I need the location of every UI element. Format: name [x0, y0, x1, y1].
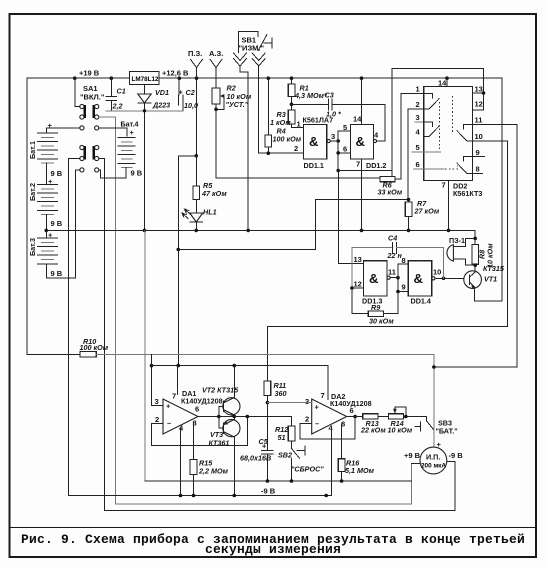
- svg-text:11: 11: [388, 268, 396, 277]
- switch SB3 БАТ.: [415, 417, 458, 436]
- terminal П.З.: [188, 49, 202, 78]
- capacitor C3: [292, 91, 385, 119]
- svg-text:2,2: 2,2: [112, 102, 123, 111]
- svg-text:Д223: Д223: [152, 101, 170, 110]
- switch SB2 СБРОС: [278, 446, 324, 481]
- DD2 pin 5 stub: [412, 151, 424, 153]
- svg-text:К140УД1208: К140УД1208: [181, 397, 223, 406]
- svg-text:9 В: 9 В: [51, 219, 63, 228]
- svg-text:5: 5: [343, 123, 347, 132]
- svg-text:ПЗ-1: ПЗ-1: [449, 236, 465, 245]
- svg-text:22 н: 22 н: [387, 251, 403, 260]
- svg-text:А.З.: А.З.: [209, 49, 223, 58]
- wire DA1 pin4 to -9V: [180, 428, 182, 496]
- svg-text:К561КТ3: К561КТ3: [453, 189, 482, 198]
- svg-text:+12,6 В: +12,6 В: [162, 69, 189, 78]
- transistor VT3 КТ361: [209, 417, 240, 496]
- wire DD2 pin2 to R7: [424, 108, 473, 110]
- svg-text:5: 5: [416, 143, 420, 152]
- svg-text:"ИЗМ.": "ИЗМ.": [239, 44, 265, 53]
- svg-text:C3: C3: [325, 91, 334, 100]
- svg-text:1: 1: [416, 85, 420, 94]
- DD2 switch 9-8: [457, 157, 473, 174]
- SA1 section2 contacts: [80, 145, 99, 160]
- svg-text:HL1: HL1: [203, 208, 217, 217]
- svg-text:секунды измерения: секунды измерения: [205, 542, 341, 557]
- svg-text:12: 12: [475, 100, 483, 109]
- wire R11 to DA2 pin3: [267, 402, 311, 404]
- wire R2 bottom to R6 left: [214, 108, 218, 112]
- svg-text:+: +: [166, 402, 171, 411]
- svg-text:47 кОм: 47 кОм: [201, 189, 227, 198]
- svg-text:100 кОм: 100 кОм: [273, 135, 302, 144]
- svg-text:33 кОм: 33 кОм: [378, 188, 403, 197]
- wire П.З. branch to DD2 pin2 net: [178, 156, 408, 250]
- wire osc net to DD1.3 pin13 and R6: [338, 170, 392, 172]
- wire 0V bottom rail: [145, 480, 411, 482]
- svg-text:К561ЛА7: К561ЛА7: [303, 116, 334, 125]
- svg-text:+: +: [48, 121, 53, 130]
- resistor R9: [352, 288, 398, 326]
- DD2 pin 14: [438, 78, 447, 87]
- DD2 switch 1-2: [424, 94, 440, 110]
- SA1 row4 contacts: [80, 168, 99, 172]
- resistor R5: [193, 78, 227, 199]
- wire rail junction dots: [73, 76, 449, 80]
- svg-text:DD1.4: DD1.4: [411, 297, 431, 306]
- svg-text:6: 6: [416, 160, 420, 169]
- DD2 switch 3-4: [424, 122, 440, 137]
- svg-text:-9 В: -9 В: [449, 451, 464, 460]
- wire DA1 output to bases: [198, 416, 234, 418]
- DD2 pin 7: [442, 180, 449, 230]
- svg-text:3: 3: [331, 132, 335, 141]
- wire +12.6V down right side: [474, 78, 501, 301]
- wire DA2 output: [347, 416, 363, 418]
- resistor R6: [378, 176, 403, 196]
- svg-text:7: 7: [321, 391, 325, 400]
- svg-text:10: 10: [433, 268, 441, 277]
- svg-text:3: 3: [155, 397, 159, 406]
- svg-text:12: 12: [354, 280, 362, 289]
- wire SA1 sec2 right to meter return: [99, 159, 455, 511]
- svg-text:1 кОм: 1 кОм: [270, 118, 291, 127]
- svg-text:4,3 МОм*: 4,3 МОм*: [294, 91, 328, 100]
- svg-text:КТ315: КТ315: [483, 264, 505, 273]
- svg-text:–: –: [315, 419, 319, 428]
- svg-text:13: 13: [354, 255, 362, 264]
- svg-text:C1: C1: [117, 87, 126, 96]
- svg-text:+: +: [315, 403, 320, 412]
- svg-text:Бат.1: Бат.1: [28, 141, 37, 159]
- connector jack 1: [234, 53, 249, 230]
- svg-text:9 В: 9 В: [131, 169, 143, 178]
- terminal А.З.: [209, 49, 223, 88]
- wire +19V to SA1: [75, 78, 80, 106]
- svg-text:"ВКЛ.": "ВКЛ.": [80, 93, 105, 102]
- svg-text:&: &: [369, 271, 378, 286]
- wire op-amp supply rail: [152, 365, 328, 367]
- resistor R10: [27, 337, 434, 357]
- DD2 dotted control lines: [440, 96, 458, 169]
- resistor R12: [275, 417, 295, 449]
- svg-text:9: 9: [476, 148, 480, 157]
- capacitor C4: [350, 234, 443, 290]
- wire П.З. branch down to DA1 supply rail: [177, 250, 179, 366]
- wire SB1/R4 node to DD1.1 pin2: [259, 152, 304, 154]
- op-amp DA1 К140УД1208: [155, 389, 223, 434]
- svg-text:8: 8: [402, 256, 406, 265]
- svg-text:6: 6: [343, 145, 347, 154]
- wire R10 tap to DA1 pin3: [150, 354, 163, 405]
- wire DD2 pin10 to sample rail: [472, 141, 507, 327]
- wire DD1.1 out to DD1.2 inputs: [336, 123, 350, 172]
- analog switch DD2 К561КТ3: [424, 86, 483, 198]
- svg-text:–: –: [167, 419, 171, 428]
- DD2 switch 11-10: [457, 124, 473, 141]
- svg-text:"БАТ.": "БАТ.": [436, 427, 458, 436]
- DD2 pin 3 stub: [415, 121, 424, 123]
- svg-text:14: 14: [438, 79, 447, 88]
- wire SA1 sec2 left to -9V rail: [68, 159, 79, 496]
- piezo ПЗ-1: [447, 236, 475, 265]
- svg-text:Бат.2: Бат.2: [28, 183, 37, 201]
- svg-text:360: 360: [275, 389, 287, 398]
- battery Бат.1: [28, 121, 63, 185]
- svg-text:4: 4: [374, 131, 379, 140]
- resistor R1: [288, 78, 328, 110]
- wire SA1 row4 right to Бат.4 minus: [99, 170, 126, 178]
- SA1 row2 contacts: [80, 126, 99, 130]
- DD2 pin 8 stub: [472, 173, 482, 175]
- svg-text:VD1: VD1: [155, 88, 169, 97]
- DD2 pin 6 stub: [414, 168, 424, 170]
- logic gate DD1.4: [408, 261, 470, 306]
- wire DA2 pin4 to -9V: [331, 427, 333, 496]
- LED HL1: [182, 200, 217, 231]
- resistor R4: [265, 78, 302, 153]
- svg-text:C2: C2: [186, 88, 195, 97]
- transistor VT2 КТ315: [202, 366, 240, 417]
- capacitor C2: [179, 78, 199, 111]
- svg-text:-9 В: -9 В: [261, 487, 276, 496]
- svg-text:3: 3: [305, 397, 309, 406]
- svg-text:6: 6: [195, 405, 199, 414]
- svg-text:3: 3: [416, 113, 420, 122]
- wire R6 right to DD2 pins 1,12,13: [392, 69, 484, 177]
- wire DA1 pin7: [177, 366, 179, 395]
- wire DA1 pin2 feedback: [152, 417, 248, 446]
- node 0V mid rail: [44, 229, 48, 233]
- svg-text:КТ361: КТ361: [209, 439, 230, 448]
- wire -9V rail: [68, 495, 331, 497]
- svg-text:R9: R9: [371, 303, 380, 312]
- svg-text:7: 7: [172, 392, 176, 401]
- meter И.П. 200 мкА: [404, 447, 463, 474]
- DD2 pin labels left: [416, 85, 421, 170]
- svg-text:"УСТ.": "УСТ.": [226, 100, 249, 109]
- svg-text:2: 2: [155, 415, 159, 424]
- resistor R7: [405, 199, 440, 230]
- trimmer R14: [388, 407, 427, 435]
- op-amp DA2 К140УД1208: [305, 391, 372, 434]
- wire SA1 row4 left to Бат.3 minus: [46, 170, 80, 278]
- svg-text:+: +: [262, 442, 267, 451]
- svg-text:+: +: [130, 128, 135, 137]
- logic gate DD1.2: [351, 78, 387, 230]
- resistor R11: [264, 381, 286, 450]
- svg-text:+19 В: +19 В: [79, 69, 100, 78]
- svg-text:VT2 КТ315: VT2 КТ315: [202, 386, 239, 395]
- svg-text:C4: C4: [388, 234, 397, 243]
- svg-text:100 кОм: 100 кОм: [80, 343, 109, 352]
- connector jack 2: [252, 53, 265, 153]
- wire +12.6V rail: [159, 77, 502, 79]
- switch SB1 ИЗМ.: [239, 32, 272, 53]
- svg-text:27 кОм: 27 кОм: [414, 207, 440, 216]
- resistor R8: [472, 237, 495, 268]
- svg-text:8: 8: [476, 165, 480, 174]
- svg-text:14: 14: [353, 115, 362, 124]
- wire DD2 pin11 to meter net: [434, 124, 517, 367]
- svg-text:68,0х16В: 68,0х16В: [240, 454, 271, 463]
- DD2 pin labels right: [475, 85, 483, 174]
- svg-text:2: 2: [305, 415, 309, 424]
- svg-text:+9 В: +9 В: [404, 451, 421, 460]
- wire 0V gray bus down: [144, 230, 146, 481]
- svg-text:+: +: [179, 88, 184, 97]
- DD2 pin 5 inner stub: [424, 151, 441, 153]
- svg-text:1: 1: [297, 120, 301, 129]
- svg-text:SB2: SB2: [278, 451, 292, 460]
- svg-text:30 кОм: 30 кОм: [369, 317, 394, 326]
- transistor VT1 КТ315: [464, 264, 505, 301]
- svg-text:&: &: [414, 271, 423, 286]
- potentiometer R2 УСТ.: [212, 84, 252, 110]
- diode VD1 Д223: [138, 85, 170, 231]
- svg-text:2: 2: [294, 144, 298, 153]
- svg-text:VT1: VT1: [484, 275, 497, 284]
- battery Бат.2: [28, 177, 63, 238]
- SA1 section1 contacts: [80, 104, 99, 119]
- svg-text:4: 4: [179, 424, 184, 433]
- wire sample rail to R11: [267, 327, 507, 382]
- wire gnd rail under VD1: [106, 110, 183, 112]
- svg-text:51: 51: [278, 433, 286, 442]
- resistor R16: [338, 424, 374, 483]
- wire Бат.1+ to SA1: [46, 127, 80, 129]
- wire DA2 feedback: [300, 417, 355, 439]
- battery Бат.4: [118, 120, 143, 178]
- svg-text:П.З.: П.З.: [188, 49, 202, 58]
- svg-text:И.П.: И.П.: [426, 453, 440, 462]
- wire DD1.3 out to DD1.4 inputs: [396, 256, 408, 314]
- battery Бат.3: [28, 231, 63, 279]
- resistor R15: [190, 422, 228, 496]
- svg-text:10: 10: [475, 132, 483, 141]
- capacitor C1: [106, 78, 126, 111]
- svg-text:4: 4: [329, 424, 334, 433]
- svg-text:9 В: 9 В: [51, 269, 63, 278]
- DD2 pin 9 stub: [472, 156, 484, 158]
- caption divider: [10, 527, 537, 529]
- switch SA1: [80, 84, 105, 102]
- wire DA2 pin7: [327, 366, 329, 400]
- svg-text:&: &: [309, 134, 318, 149]
- voltage regulator LM78L12: [130, 72, 160, 85]
- svg-text:DD1.2: DD1.2: [366, 161, 386, 170]
- svg-text:Бат.3: Бат.3: [28, 238, 37, 256]
- svg-text:2: 2: [416, 100, 420, 109]
- wire output node right: [234, 416, 291, 418]
- svg-text:LM78L12: LM78L12: [132, 76, 159, 83]
- wire R10 net down to meter plus: [432, 354, 441, 449]
- svg-text:DD1.1: DD1.1: [304, 161, 324, 170]
- svg-text:&: &: [356, 134, 365, 149]
- capacitor C5: [240, 437, 273, 483]
- svg-text:"СБРОС": "СБРОС": [291, 465, 324, 474]
- DD2 pin 6 inner stub: [424, 168, 444, 170]
- wire +19V rail: [27, 78, 130, 354]
- svg-text:2,2 МОм: 2,2 МОм: [198, 467, 229, 476]
- wire 0V rail: [46, 230, 475, 238]
- svg-text:4: 4: [416, 128, 421, 137]
- svg-text:11: 11: [475, 116, 483, 125]
- svg-text:9: 9: [402, 283, 406, 292]
- svg-text:13: 13: [475, 85, 483, 94]
- svg-text:200 мкА: 200 мкА: [421, 463, 446, 470]
- svg-text:22 кОм: 22 кОм: [360, 426, 386, 435]
- wire SA1 row2 to Бат.4+: [99, 128, 127, 136]
- svg-text:10 кОм: 10 кОм: [388, 426, 413, 435]
- svg-text:5,1 МОм: 5,1 МОм: [345, 466, 375, 475]
- resistor R13: [360, 414, 388, 435]
- svg-text:7: 7: [442, 181, 446, 190]
- svg-text:К140УД1208: К140УД1208: [330, 399, 372, 408]
- logic gate DD1.3: [339, 255, 398, 306]
- svg-text:7: 7: [356, 160, 360, 169]
- logic gate DD1.1 К561ЛА7: [292, 116, 339, 171]
- wire SA1 sec1 right to +9V gray bus: [99, 117, 412, 504]
- resistor R3: [270, 110, 295, 128]
